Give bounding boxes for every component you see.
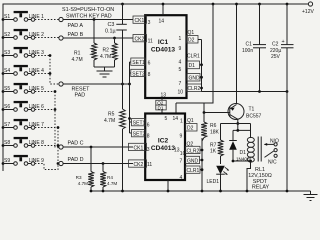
wire +12V drop: [212, 3, 215, 6]
resistor R7 1K: [220, 124, 222, 141]
svg-text:10: 10: [180, 151, 186, 157]
wire IC2 pin stub to ground: [167, 180, 169, 191]
pad C: [59, 145, 63, 149]
svg-text:14: 14: [173, 116, 179, 122]
ground symbol (R1/R2): [97, 70, 113, 72]
svg-text:S6: S6: [4, 104, 10, 110]
node CLR2 (IC2 pin 10): [186, 146, 201, 153]
reset pad: [59, 82, 63, 86]
svg-text:GND: GND: [189, 75, 201, 81]
svg-text:4.7M: 4.7M: [100, 54, 111, 60]
svg-text:7: 7: [179, 81, 182, 87]
relay contacts: [264, 138, 279, 165]
wire collector node: [236, 122, 239, 125]
switch S7: [2, 119, 45, 129]
svg-text:14: 14: [159, 19, 165, 25]
node D1 (IC1 pin 5): [187, 61, 200, 69]
svg-text:CLR2: CLR2: [188, 86, 201, 92]
wire IC2 ties: [201, 138, 203, 191]
op IC2 CD4013: [145, 114, 185, 181]
svg-text:LINE 2: LINE 2: [29, 32, 45, 38]
svg-text:9: 9: [179, 46, 182, 52]
capacitor C3 0.1u: [121, 3, 124, 6]
wire to T1 base: [203, 103, 205, 113]
wire ground bus horizontal: [202, 91, 288, 93]
svg-text:LED1: LED1: [207, 179, 220, 185]
svg-text:PAD D: PAD D: [68, 157, 84, 163]
svg-text:R4: R4: [107, 175, 113, 180]
svg-text:CK1: CK1: [134, 145, 144, 151]
svg-text:S5: S5: [4, 86, 10, 92]
svg-text:D1: D1: [158, 105, 164, 110]
node SET1 (IC2 pin 6): [132, 119, 146, 126]
relay core: [257, 137, 259, 162]
svg-text:R2: R2: [103, 48, 110, 54]
svg-text:LINE 8: LINE 8: [29, 140, 45, 146]
svg-text:SET2: SET2: [132, 71, 145, 77]
wire pad B to CK2: [63, 37, 133, 39]
LED1: [207, 166, 230, 193]
wire line3/line4 to reset pad (dashed): [35, 55, 50, 57]
svg-text:S8: S8: [4, 140, 10, 146]
wire line5/line6 to pad C (dashed): [35, 91, 55, 93]
svg-text:CLR1: CLR1: [187, 168, 200, 174]
wire pad D to CK2 of IC2: [63, 163, 133, 165]
svg-text:100n: 100n: [242, 48, 253, 54]
svg-text:LINE 9: LINE 9: [29, 158, 45, 164]
node SET1 (IC1 pin 6): [131, 58, 145, 65]
ground symbol: [310, 191, 312, 195]
capacitor C1 100n: [242, 3, 266, 92]
svg-text:LINE 4: LINE 4: [29, 68, 45, 74]
svg-text:R1: R1: [74, 51, 81, 57]
svg-text:4.7M: 4.7M: [72, 57, 83, 63]
svg-text:PAD: PAD: [75, 93, 86, 99]
svg-text:D1: D1: [240, 150, 247, 156]
wire pad C to CK1 of IC2: [63, 146, 133, 148]
svg-text:S1-S9=PUSH-TO-ON: S1-S9=PUSH-TO-ON: [62, 7, 114, 13]
svg-text:PAD C: PAD C: [68, 141, 84, 147]
wire D1 top to coil: [233, 129, 251, 131]
resistor R5 4.7M: [122, 84, 124, 109]
wire R1/R2 join: [94, 66, 115, 68]
svg-text:S4: S4: [4, 68, 10, 74]
svg-text:4.7M: 4.7M: [78, 181, 88, 186]
node CK2 (IC1 pin 11): [133, 35, 147, 42]
resistor R1 4.7M: [93, 18, 96, 21]
svg-text:IC1: IC1: [158, 39, 169, 46]
svg-text:LINE 6: LINE 6: [29, 104, 45, 110]
svg-text:LINE 5: LINE 5: [29, 86, 45, 92]
svg-text:10: 10: [178, 90, 184, 96]
svg-text:RELAY: RELAY: [252, 184, 270, 190]
svg-text:RL1: RL1: [255, 167, 265, 173]
transistor T1 BC557: [228, 3, 262, 124]
svg-text:S3: S3: [4, 50, 10, 56]
op IC1 CD4013: [145, 15, 186, 98]
wire IC1 ties to ground bus: [198, 39, 202, 41]
svg-text:SET1: SET1: [133, 121, 146, 127]
svg-text:CK1: CK1: [135, 18, 145, 24]
svg-text:LINE 3: LINE 3: [29, 50, 45, 56]
svg-text:R5: R5: [108, 112, 115, 118]
svg-text:8: 8: [148, 72, 151, 78]
svg-text:SET2: SET2: [133, 132, 146, 138]
svg-text:7: 7: [180, 158, 183, 164]
svg-text:18K: 18K: [210, 129, 220, 135]
svg-text:CLR1: CLR1: [187, 54, 200, 60]
node Q2/D1 link: [161, 98, 163, 101]
svg-text:PAD B: PAD B: [68, 32, 84, 38]
svg-text:LINE 7: LINE 7: [29, 122, 45, 128]
wire line7/line8 to pad D (dashed): [35, 127, 58, 129]
svg-text:R6: R6: [210, 123, 217, 129]
svg-text:C2: C2: [272, 41, 279, 47]
node D2 (IC2 pin 9): [186, 124, 198, 132]
svg-text:4: 4: [180, 175, 183, 181]
svg-text:6: 6: [148, 61, 151, 67]
svg-text:6: 6: [147, 123, 150, 129]
svg-text:CK2: CK2: [134, 162, 144, 168]
svg-text:+12V: +12V: [302, 9, 314, 15]
svg-text:13: 13: [161, 93, 167, 99]
node CLR1 (IC2 pin 4): [186, 166, 201, 173]
svg-text:GND: GND: [187, 158, 199, 164]
resistor R6 18K: [203, 113, 205, 123]
wire SET1/SET2 tie: [129, 62, 131, 133]
svg-text:N/C: N/C: [268, 159, 277, 165]
switch S3: [2, 47, 45, 57]
+12V supply rail: [3, 4, 309, 171]
wire line2 to pad B (dashed): [35, 37, 59, 39]
svg-text:C1: C1: [246, 41, 253, 47]
node SET2 (IC2 pin 8): [132, 130, 146, 137]
svg-text:SET1: SET1: [132, 60, 145, 66]
wire line9 jog to pad D (dashed): [35, 164, 59, 170]
switch S8: [2, 137, 45, 147]
node GND (IC2 pin 7): [186, 156, 200, 163]
svg-text:S7: S7: [4, 122, 10, 128]
svg-text:SWITCH KEY PAD: SWITCH KEY PAD: [66, 14, 112, 20]
svg-text:CK2: CK2: [135, 37, 145, 43]
switch S2: [2, 29, 45, 39]
resistor R4 4.7M: [102, 164, 104, 172]
svg-text:CLR2: CLR2: [187, 148, 200, 154]
svg-text:Q1: Q1: [188, 30, 195, 36]
svg-text:11: 11: [147, 162, 152, 168]
switch S1: [2, 11, 45, 21]
wire D1 bottom to coil bottom: [233, 160, 251, 162]
node D2 (IC1 pin 9): [187, 36, 199, 44]
wire reset pad to set rail: [63, 83, 129, 85]
svg-text:5: 5: [179, 67, 182, 73]
wire line1 to pad A (dashed): [35, 19, 59, 21]
svg-text:1: 1: [179, 36, 182, 42]
switch S5: [2, 83, 45, 93]
svg-text:CD4013: CD4013: [151, 145, 176, 152]
svg-text:3: 3: [147, 147, 150, 153]
svg-text:S1: S1: [4, 14, 10, 20]
node SET2 (IC1 pin 8): [131, 69, 145, 76]
svg-text:D1: D1: [189, 63, 196, 69]
node CLR2 (IC1 pin 10): [187, 84, 202, 92]
+12V terminal: [308, 2, 312, 6]
capacitor C2 220u 25V: [270, 3, 294, 193]
pad D: [59, 161, 63, 165]
node CK2 (IC2 pin 11): [129, 160, 147, 167]
node CK1 (IC2 pin 3): [129, 143, 147, 150]
pad B: [59, 36, 63, 40]
node CK1 (IC1 pin 3): [133, 16, 147, 23]
diode D1 1N4001: [229, 130, 252, 161]
svg-text:5: 5: [165, 116, 168, 122]
svg-text:220µ: 220µ: [270, 48, 281, 54]
svg-text:4: 4: [179, 60, 182, 66]
svg-text:LINE 1: LINE 1: [29, 14, 45, 20]
svg-text:R7: R7: [210, 142, 217, 148]
IC1 pin 14: [162, 4, 164, 15]
switch S9: [2, 155, 45, 165]
relay RL1 coil: [246, 124, 255, 193]
resistor R2 4.7M: [113, 37, 116, 40]
svg-text:D2: D2: [187, 126, 194, 132]
svg-text:25V: 25V: [271, 54, 281, 60]
svg-text:1: 1: [180, 118, 183, 124]
svg-text:9: 9: [180, 134, 183, 140]
svg-text:8: 8: [147, 134, 150, 140]
svg-text:4.7M: 4.7M: [104, 118, 115, 124]
svg-text:BC557: BC557: [246, 113, 262, 119]
node GND (IC1 pin 7): [187, 74, 200, 82]
svg-text:3: 3: [148, 20, 151, 26]
pad A: [59, 17, 63, 21]
svg-text:CD4013: CD4013: [151, 47, 176, 54]
switch S6: [2, 101, 45, 111]
ground rail: [91, 190, 311, 192]
switch S4: [2, 65, 45, 75]
svg-text:R3: R3: [76, 175, 82, 180]
svg-text:D2: D2: [188, 38, 195, 44]
svg-text:Q1: Q1: [187, 118, 194, 124]
wire pad A to CK1: [63, 19, 133, 21]
svg-text:IC2: IC2: [158, 138, 169, 145]
svg-text:S9: S9: [4, 158, 10, 164]
svg-text:T1: T1: [249, 107, 255, 113]
svg-text:+: +: [282, 39, 285, 45]
svg-text:C3: C3: [108, 22, 115, 28]
svg-text:4.7M: 4.7M: [107, 181, 117, 186]
svg-text:0.1µ: 0.1µ: [105, 29, 116, 35]
svg-text:11: 11: [148, 39, 153, 45]
resistor R3 4.7M: [90, 147, 92, 172]
svg-text:N/O: N/O: [270, 138, 279, 144]
svg-text:PAD A: PAD A: [68, 23, 84, 29]
svg-text:1K: 1K: [210, 149, 217, 155]
svg-text:S2: S2: [4, 32, 10, 38]
